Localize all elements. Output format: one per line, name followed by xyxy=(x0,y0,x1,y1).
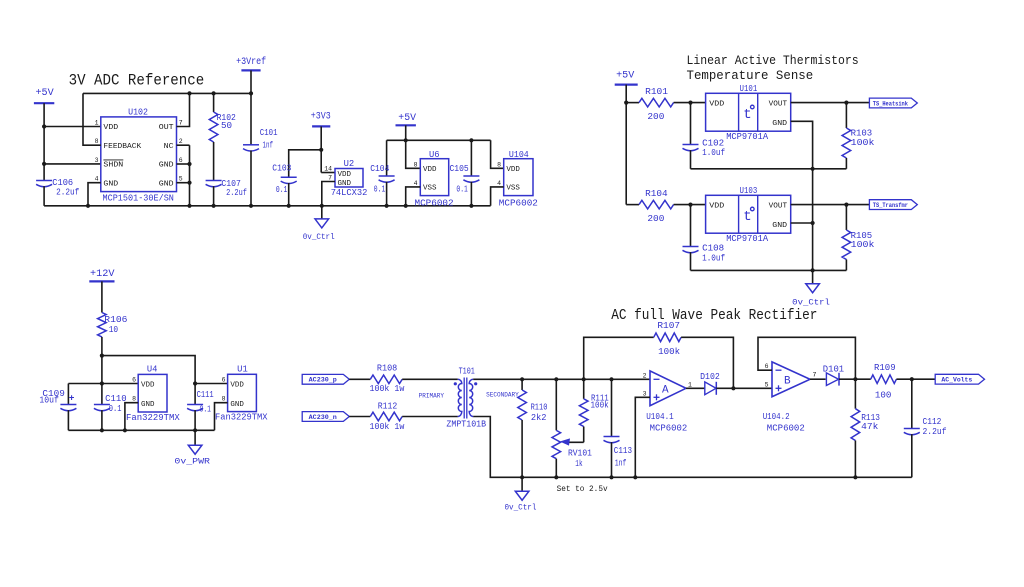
svg-text:1k: 1k xyxy=(575,459,582,469)
svg-text:4: 4 xyxy=(95,176,99,183)
resistor R103 xyxy=(842,103,851,169)
wire opamp A out to D102 xyxy=(686,387,705,389)
svg-text:+: + xyxy=(69,393,75,404)
transformer T101 secondary coil xyxy=(469,379,473,416)
svg-text:0.1: 0.1 xyxy=(200,404,212,414)
svg-text:8: 8 xyxy=(95,138,99,145)
svg-text:10uf: 10uf xyxy=(39,396,59,406)
U103 part number MCP9701A xyxy=(726,234,769,244)
junction C103 bus xyxy=(287,204,291,208)
svg-text:3: 3 xyxy=(643,390,647,397)
svg-text:AC full Wave Peak Rectifier: AC full Wave Peak Rectifier xyxy=(611,307,817,324)
wire U102 pin4 GND down to bus xyxy=(88,183,101,206)
U6 pin numbers xyxy=(414,161,418,187)
svg-text:D101: D101 xyxy=(823,365,844,375)
svg-text:VDD: VDD xyxy=(423,166,437,174)
svg-text:2: 2 xyxy=(643,372,647,379)
junction U103 gnd xyxy=(811,221,815,225)
junction R106 rail xyxy=(100,354,104,358)
power flag +12V xyxy=(89,269,114,282)
svg-text:100k 1w: 100k 1w xyxy=(370,384,405,394)
junction U2 gnd bus xyxy=(320,204,324,208)
wire R107 to output node xyxy=(681,337,733,388)
note Set to 2.5v xyxy=(557,485,608,494)
svg-text:R106: R106 xyxy=(104,315,127,325)
U102 ref label xyxy=(128,107,148,117)
U102 pin numbers right xyxy=(179,119,183,182)
resistor R112 xyxy=(370,412,402,421)
svg-text:1: 1 xyxy=(95,119,99,126)
svg-text:GND: GND xyxy=(338,180,352,188)
capacitor C111 lead xyxy=(194,384,196,405)
capacitor C102 xyxy=(683,145,699,151)
U1 box xyxy=(228,374,257,411)
resistor R101 xyxy=(626,98,705,107)
svg-text:+5V: +5V xyxy=(616,71,634,82)
svg-text:6: 6 xyxy=(132,377,136,384)
capacitor C104 xyxy=(379,176,395,182)
svg-text:MCP9701A: MCP9701A xyxy=(726,234,769,244)
capacitor C101 xyxy=(243,145,259,151)
capacitor C108 lead xyxy=(690,205,692,247)
op-amp B letter xyxy=(784,376,791,388)
svg-text:VOUT: VOUT xyxy=(769,203,788,211)
wire U103 VOUT to TS_Transfmr xyxy=(791,204,870,206)
svg-text:100k: 100k xyxy=(658,347,680,357)
svg-text:B: B xyxy=(784,376,791,388)
wire opamp B out to D101 xyxy=(810,378,826,380)
svg-text:1: 1 xyxy=(688,382,692,389)
junction +3V3/C103 xyxy=(319,148,323,152)
U4 part number Fan3229TMX xyxy=(126,413,180,423)
svg-text:200: 200 xyxy=(647,214,664,224)
junction C105 top xyxy=(469,138,473,142)
T101 winding labels xyxy=(419,392,520,400)
svg-text:PRIMARY: PRIMARY xyxy=(419,393,445,400)
svg-text:47k: 47k xyxy=(861,422,878,432)
U2 box xyxy=(335,169,363,188)
svg-text:NC: NC xyxy=(164,143,174,151)
R101 labels xyxy=(645,87,668,122)
svg-text:RV101: RV101 xyxy=(568,449,592,459)
R105 labels xyxy=(851,231,875,250)
wire R112 to T101 primary xyxy=(402,416,458,418)
ground 0v_Ctrl (rectifier) xyxy=(505,477,537,512)
capacitor C107 xyxy=(206,181,222,187)
transformer polarity dots xyxy=(454,382,478,385)
R107 labels xyxy=(657,321,680,357)
svg-text:5: 5 xyxy=(765,381,769,388)
svg-text:U1: U1 xyxy=(237,365,248,375)
op-amp U104.1 triangle xyxy=(650,371,686,406)
junction R105 top xyxy=(844,203,848,207)
svg-text:R101: R101 xyxy=(645,87,668,97)
svg-text:GND: GND xyxy=(159,180,174,188)
wire +5V to U102 pin 3 SHDN xyxy=(44,163,101,165)
junction U6 vss bus xyxy=(404,204,408,208)
svg-text:0.1: 0.1 xyxy=(456,185,468,195)
svg-text:0v_Ctrl: 0v_Ctrl xyxy=(792,297,830,307)
svg-text:VDD: VDD xyxy=(230,382,244,390)
ground 0v_PWR xyxy=(174,430,210,466)
svg-text:U101: U101 xyxy=(740,84,758,94)
svg-text:U104.2: U104.2 xyxy=(763,412,790,422)
ground 0v_Ctrl (thermistors) xyxy=(792,270,830,307)
svg-text:Temperature Sense: Temperature Sense xyxy=(687,68,814,83)
svg-text:2: 2 xyxy=(179,138,183,145)
svg-text:100k: 100k xyxy=(591,401,609,411)
svg-text:U104: U104 xyxy=(509,150,529,160)
svg-text:t: t xyxy=(743,107,751,123)
U101 box xyxy=(706,93,791,131)
C108 labels xyxy=(702,244,725,264)
svg-text:100: 100 xyxy=(875,390,892,400)
svg-text:AC_Volts: AC_Volts xyxy=(941,377,972,384)
U103 ref label xyxy=(740,186,758,196)
U6 box xyxy=(420,159,448,196)
resistor R102 xyxy=(209,93,218,180)
op-amp B pin numbers xyxy=(765,363,817,388)
capacitor C104 branch xyxy=(386,140,388,176)
C104 labels xyxy=(370,164,389,195)
svg-text:C105: C105 xyxy=(450,164,469,174)
svg-text:100k: 100k xyxy=(851,138,875,148)
transformer T101 core xyxy=(464,378,467,419)
C113 labels xyxy=(614,446,632,468)
svg-text:50: 50 xyxy=(221,121,232,131)
svg-text:C108: C108 xyxy=(702,244,724,254)
junction C111 bus xyxy=(193,428,197,432)
svg-text:VDD: VDD xyxy=(103,124,118,132)
power flag +5V (opamp supplies) xyxy=(396,113,417,126)
svg-text:+5V: +5V xyxy=(398,113,416,124)
svg-text:VDD: VDD xyxy=(709,203,725,211)
RV101 wiper arrow xyxy=(560,438,584,445)
wire +5V stem 2 xyxy=(405,125,407,140)
U101 pin names xyxy=(709,101,787,128)
junction C113 top xyxy=(609,377,613,381)
svg-text:A: A xyxy=(662,385,669,397)
wire U101 GND down xyxy=(791,121,813,169)
potentiometer RV101 xyxy=(552,379,561,477)
junction R113 gnd bus xyxy=(853,475,857,479)
U1 ref label xyxy=(237,365,248,375)
junction C108 xyxy=(688,203,692,207)
junction R102 top bus xyxy=(212,91,216,95)
U102 pin names left xyxy=(103,124,141,188)
junction C101 bus xyxy=(249,204,253,208)
svg-text:R104: R104 xyxy=(645,189,668,199)
wire C107 to bus xyxy=(213,186,215,206)
wire C110 to bus xyxy=(101,410,103,430)
junction C105 bus xyxy=(469,204,473,208)
section title line 2: Temperature Sense xyxy=(687,68,814,83)
svg-text:0.1: 0.1 xyxy=(276,185,288,195)
wire R109 to AC_Volts xyxy=(896,378,935,380)
U104 pin names xyxy=(506,166,520,193)
junction +5V/VDD xyxy=(42,124,46,128)
junction gnd bottom bus xyxy=(811,268,815,272)
wire +12V stem xyxy=(101,281,103,312)
resistor R110 xyxy=(518,379,527,477)
svg-text:10: 10 xyxy=(109,325,118,335)
wire U103 GND to vertical xyxy=(791,222,813,224)
U102 pin numbers left xyxy=(95,119,99,182)
svg-text:VSS: VSS xyxy=(506,185,520,193)
junction R110 top xyxy=(520,377,524,381)
svg-text:MCP6002: MCP6002 xyxy=(650,424,688,434)
junction C107 bus xyxy=(212,204,216,208)
wire C101 to bus xyxy=(250,151,252,206)
hier label AC230_n xyxy=(302,412,349,422)
svg-text:MCP1501-30E/SN: MCP1501-30E/SN xyxy=(103,193,174,203)
capacitor C113 xyxy=(604,437,620,443)
U104.1 labels xyxy=(646,412,687,434)
svg-text:0.1: 0.1 xyxy=(109,404,122,414)
svg-text:2.2uf: 2.2uf xyxy=(56,188,79,198)
capacitor C102 lead xyxy=(690,103,692,145)
svg-text:100k 1w: 100k 1w xyxy=(370,422,405,432)
hier label TS_Transfmr xyxy=(869,200,917,210)
svg-text:2.2uf: 2.2uf xyxy=(923,427,947,437)
op-amp A letter xyxy=(662,385,669,397)
junction U1 vdd xyxy=(193,381,197,385)
C109 labels xyxy=(39,389,65,406)
svg-text:C110: C110 xyxy=(105,394,127,404)
svg-text:C112: C112 xyxy=(923,417,942,427)
wire C113 to gnd bus xyxy=(611,442,613,477)
wire +5V down to U6 pin 8 xyxy=(406,140,421,168)
junction U101 gnd mid bus xyxy=(811,167,815,171)
svg-text:TS_Heatsink: TS_Heatsink xyxy=(873,100,909,107)
svg-text:0v_Ctrl: 0v_Ctrl xyxy=(303,232,335,242)
C111 labels xyxy=(197,390,214,414)
C107 labels xyxy=(221,179,247,198)
svg-text:t: t xyxy=(743,209,751,225)
hier label TS_Heatsink xyxy=(869,98,917,108)
svg-text:8: 8 xyxy=(497,161,501,168)
capacitor C109 branch xyxy=(67,384,69,405)
wire R108 to T101 primary xyxy=(402,378,458,380)
svg-text:Fan3229TMX: Fan3229TMX xyxy=(215,412,268,422)
U102 box xyxy=(101,117,177,192)
svg-text:ZMPT101B: ZMPT101B xyxy=(446,419,486,429)
C106 value labels xyxy=(52,178,79,198)
svg-text:R110: R110 xyxy=(531,403,548,413)
svg-text:GND: GND xyxy=(159,162,174,170)
svg-text:TS_Transfmr: TS_Transfmr xyxy=(873,202,909,209)
wire C102 to mid bus xyxy=(690,150,692,169)
svg-text:MCP9701A: MCP9701A xyxy=(726,132,769,142)
C102 labels xyxy=(702,139,725,158)
capacitor C105 branch xyxy=(470,140,472,176)
wire top rail to U1 column xyxy=(102,356,195,384)
wire +5V down to U104 pin 8 xyxy=(491,140,504,168)
junction RV101 bottom xyxy=(554,475,558,479)
svg-text:R107: R107 xyxy=(657,321,680,331)
U101 ref label xyxy=(740,84,758,94)
wire VDD row U1 xyxy=(195,383,228,385)
U2 part number 74LCX32 xyxy=(331,188,368,198)
junction C110 top xyxy=(100,381,104,385)
capacitor C112 lead xyxy=(911,379,913,428)
wire C112 to gnd bus xyxy=(911,434,913,477)
svg-text:VDD: VDD xyxy=(506,166,520,174)
op-amp B minus plus marks xyxy=(776,370,782,391)
svg-text:GND: GND xyxy=(103,180,118,188)
wire C105 to bus xyxy=(470,182,472,206)
wire +5V to U102 pin 1 VDD xyxy=(44,126,101,128)
U4 pin numbers xyxy=(132,377,136,403)
svg-text:7: 7 xyxy=(813,372,817,379)
U1 pin numbers xyxy=(222,377,226,403)
svg-text:6: 6 xyxy=(765,363,769,370)
svg-text:MCP6002: MCP6002 xyxy=(767,424,805,434)
junction +5V stem xyxy=(404,138,408,142)
wire +5V stem down to bus xyxy=(43,103,45,180)
svg-text:U6: U6 xyxy=(429,150,440,160)
section title: AC full Wave Peak Rectifier xyxy=(611,307,817,324)
wire C109 to bus xyxy=(67,410,69,430)
svg-text:100k: 100k xyxy=(851,240,875,250)
capacitor C111 xyxy=(187,405,203,411)
hier label AC230_p xyxy=(302,374,349,384)
svg-text:VDD: VDD xyxy=(709,101,725,109)
wire C108 to bottom bus xyxy=(690,252,692,270)
U103 pin names xyxy=(709,203,787,230)
svg-text:3V ADC Reference: 3V ADC Reference xyxy=(69,72,205,90)
svg-text:R112: R112 xyxy=(378,401,398,411)
svg-text:C104: C104 xyxy=(370,164,389,174)
R104 labels xyxy=(645,189,668,224)
D101 label xyxy=(823,365,844,375)
wire C103 to bus xyxy=(288,183,290,206)
junction pin3 gnd bus xyxy=(633,475,637,479)
U103 box xyxy=(706,195,791,233)
U102 part number MCP1501-30E/SN xyxy=(103,193,174,203)
svg-text:1nf: 1nf xyxy=(263,140,274,150)
feedback rail R107 xyxy=(584,337,654,379)
capacitor C113 lead xyxy=(611,379,613,436)
svg-text:+3Vref: +3Vref xyxy=(236,56,266,68)
section title: Linear Active Thermistors xyxy=(687,53,859,68)
svg-text:1nf: 1nf xyxy=(615,458,627,468)
power flag +5V (thermistors) xyxy=(615,71,638,85)
R106 labels xyxy=(104,315,127,335)
ground bus (section 3) xyxy=(68,429,214,431)
svg-text:U103: U103 xyxy=(740,186,758,196)
junction C112 top xyxy=(910,377,914,381)
svg-text:2k2: 2k2 xyxy=(531,413,547,423)
svg-text:7: 7 xyxy=(328,175,332,182)
svg-text:VOUT: VOUT xyxy=(769,101,788,109)
resistor R105 xyxy=(842,205,851,271)
svg-text:6: 6 xyxy=(179,157,183,164)
wire secondary bottom to gnd bus xyxy=(473,417,912,478)
resistor R104 xyxy=(626,200,705,209)
junction R110 bottom gnd xyxy=(520,475,524,479)
svg-text:14: 14 xyxy=(324,166,332,173)
svg-text:200: 200 xyxy=(647,112,664,122)
svg-text:FEEDBACK: FEEDBACK xyxy=(103,143,141,151)
wire top bus xyxy=(83,92,251,94)
hier label AC_Volts xyxy=(935,374,984,384)
resistor R106 xyxy=(98,313,107,384)
junction output node B xyxy=(853,377,857,381)
diode D102 xyxy=(705,382,717,395)
svg-text:SHDN: SHDN xyxy=(103,162,123,170)
svg-text:AC230_n: AC230_n xyxy=(309,414,338,421)
svg-text:0v_Ctrl: 0v_Ctrl xyxy=(505,502,537,512)
junction GND pin5 xyxy=(187,181,191,185)
wire +5V distribution line xyxy=(387,139,491,141)
U6 ref label xyxy=(429,150,440,160)
svg-text:T101: T101 xyxy=(459,367,475,377)
resistor R113 xyxy=(851,379,860,477)
svg-text:MCP6002: MCP6002 xyxy=(415,199,454,209)
svg-text:R108: R108 xyxy=(377,363,397,373)
diode D101 xyxy=(826,373,839,386)
wire AC230_n to R112 xyxy=(349,416,370,418)
main ground bus of section 1 xyxy=(44,205,491,207)
U6 pin names xyxy=(423,166,437,193)
capacitor C110 lead xyxy=(101,384,103,405)
U2 ref label xyxy=(344,159,355,169)
U6 part number MCP6002 xyxy=(415,199,454,209)
wire FEEDBACK to top bus xyxy=(83,93,101,145)
section title: 3V ADC Reference xyxy=(69,72,205,90)
svg-text:C113: C113 xyxy=(614,446,632,456)
junction OUT/top bus xyxy=(187,91,191,95)
svg-text:5: 5 xyxy=(179,176,183,183)
capacitor C109 xyxy=(60,393,76,411)
capacitor C103 branch xyxy=(289,150,322,178)
svg-text:R109: R109 xyxy=(874,363,896,373)
U101 thermistor t symbol xyxy=(743,105,754,123)
svg-text:C111: C111 xyxy=(197,390,214,400)
svg-text:GND: GND xyxy=(772,222,787,230)
svg-text:1.0uf: 1.0uf xyxy=(702,148,725,158)
C101 labels xyxy=(260,128,278,151)
capacitor C105 xyxy=(463,176,479,182)
op-amp A minus plus marks xyxy=(654,379,660,400)
R110 labels xyxy=(531,403,548,423)
T101 ref label xyxy=(459,367,475,377)
wire NC-GND-GND tie down to bus xyxy=(177,145,190,206)
wire U101 VOUT to TS_Heatsink xyxy=(791,102,870,104)
svg-text:+12V: +12V xyxy=(90,269,115,280)
svg-text:C103: C103 xyxy=(272,163,291,173)
svg-text:+3V3: +3V3 xyxy=(311,112,331,123)
capacitor C110 xyxy=(94,405,110,411)
op-amp U104.2 triangle xyxy=(772,362,810,397)
C112 labels xyxy=(923,417,947,437)
svg-text:+5V: +5V xyxy=(36,88,54,99)
wire U4 GND to bus xyxy=(125,403,138,431)
wire noninverting input to gnd bus xyxy=(635,397,650,477)
R109 labels xyxy=(874,363,896,400)
svg-text:VDD: VDD xyxy=(141,382,155,390)
junction C110 bus xyxy=(100,428,104,432)
junction U4 gnd bus xyxy=(123,428,127,432)
wire secondary top row xyxy=(473,378,650,380)
svg-text:AC230_p: AC230_p xyxy=(309,377,338,384)
svg-text:D102: D102 xyxy=(700,372,720,382)
wire +5V stem to R101/R104 xyxy=(625,85,627,205)
R113 labels xyxy=(861,413,880,432)
junction U102 gnd on bus xyxy=(187,204,191,208)
capacitor C106 xyxy=(36,181,52,187)
